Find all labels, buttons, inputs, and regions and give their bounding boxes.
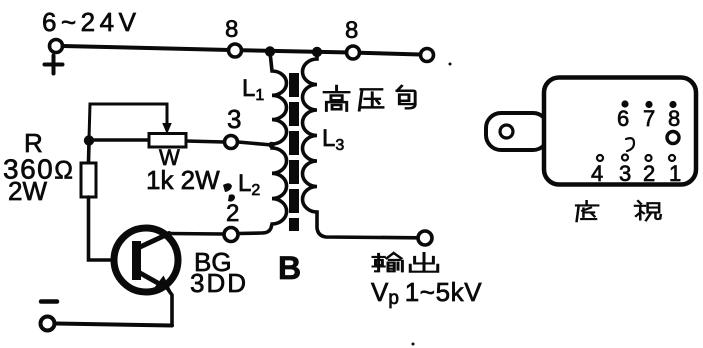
svg-text:2: 2 [226,200,239,227]
svg-text:6~24V: 6~24V [42,7,140,37]
底 [576,201,598,221]
svg-text:Vp 1~5kV: Vp 1~5kV [371,277,482,309]
wire wiper loop: junction up, right, down to arrow [89,104,167,139]
junction dot right (transformer top-right) [312,47,322,57]
svg-text:L2: L2 [238,170,260,199]
wire top bus from + terminal to top-right terminal [63,46,420,55]
svg-text:6: 6 [617,106,629,131]
svg-text:8: 8 [345,17,358,44]
transformer B: primary winding L1 (top) and L2 (bottom) left coil [238,52,287,234]
package tab (mounting ear) [486,113,548,150]
svg-text:3: 3 [227,104,241,134]
plus sign [45,56,63,74]
svg-text:4: 4 [591,161,603,186]
wire pot right to terminal 3 [186,141,224,142]
svg-text:2: 2 [643,161,655,186]
输 [373,253,402,271]
svg-text:7: 7 [643,106,655,131]
svg-text:8: 8 [225,16,238,43]
terminal 2 circle [224,228,238,242]
svg-text:B: B [278,250,301,286]
包 [397,86,415,108]
svg-text:3DD: 3DD [190,268,248,298]
minus sign [41,299,57,304]
terminal negative (bottom-left) [41,317,55,331]
svg-text:3: 3 [619,161,631,186]
transistor BG circle [114,228,178,292]
pin dots bottom row (small open) [597,155,603,161]
terminal 8 left circle [229,44,242,57]
wire junction down to resistor [87,141,91,163]
transformer B: secondary winding L3 (right coil) [303,52,418,238]
terminal 8 right circle [347,46,360,59]
terminal 3 circle [225,136,238,149]
terminal top-right open circle [421,49,434,62]
transistor emitter line with arrow [140,273,165,287]
视 [635,201,661,220]
output terminal circle [418,231,432,245]
svg-text:2W: 2W [8,176,47,206]
svg-text:8: 8 [668,106,680,131]
label 底视 (hand-drawn glyphs) [576,201,661,221]
高 [324,86,349,111]
svg-text:L1: L1 [242,75,264,104]
wire tap to terminal 3 [238,142,272,145]
wire resistor down to base lead [89,197,134,260]
transformer B: core (dashed) [289,73,299,231]
wire emitter down to bottom bus [167,288,172,325]
pin 8 big hole circle [667,132,679,144]
bottom speck [412,343,415,346]
terminal positive (top-left) [50,40,63,53]
package body outline [544,78,696,185]
transformer tap junction dot [268,142,274,148]
svg-text:1: 1 [669,161,681,186]
scribble in package [626,138,634,151]
wire junction to pot left [89,138,149,142]
wiper arrowhead [163,124,171,134]
speck dot [449,63,452,66]
wire collector to terminal 2 [168,232,224,236]
resistor R body [81,163,96,197]
junction dot left (transformer top-left) [265,46,275,56]
tab hole [500,125,513,138]
wire bottom bus [56,324,172,326]
svg-text:1k 2W: 1k 2W [146,165,220,195]
出 [410,253,438,272]
potentiometer W body [149,134,186,148]
label 输出 (hand-drawn glyphs) [373,253,438,272]
svg-text:L3: L3 [322,125,344,154]
label 高压包 (hand-drawn glyphs) [324,86,415,111]
transistor base bar [132,241,141,280]
transistor collector line [140,234,169,248]
压 [359,89,383,110]
junction dot at R top / pot left [84,135,94,145]
pin dots top row (filled) [621,100,628,107]
smudge scribble left of L2 [223,183,235,201]
